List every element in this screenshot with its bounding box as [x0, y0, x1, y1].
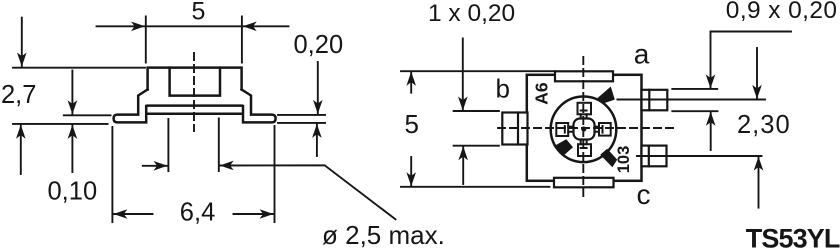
left view vertical centerline [193, 53, 195, 131]
dimension label 5 (top) [192, 0, 206, 26]
rotor wedge NE [597, 87, 615, 104]
dimension label 2,30 [737, 111, 791, 139]
svg-text:5: 5 [192, 0, 206, 26]
svg-text:A6: A6 [532, 82, 552, 105]
part number TS53YL [746, 223, 840, 250]
dimension slot 2,5 leader with left-pointing arrow [220, 165, 395, 219]
dimension 6,4 extension lines [112, 126, 274, 222]
rotor wedge SW [554, 139, 573, 155]
right view bottom pad [554, 178, 614, 188]
svg-text:0,10: 0,10 [48, 177, 98, 205]
svg-text:c: c [637, 179, 651, 210]
dimension 0,10 reference lines [13, 115, 111, 124]
rotor south slot [578, 140, 591, 157]
svg-text:a: a [634, 39, 650, 70]
svg-text:ø 2,5 max.: ø 2,5 max. [322, 220, 445, 250]
rotor east slot [595, 123, 611, 136]
dimension 1 x 0,20 arrows [462, 38, 464, 184]
dimension label diameter 2,5 max. [322, 220, 445, 250]
rotor center dot [581, 126, 586, 131]
dimension label 6,4 [180, 199, 215, 227]
dimension label 0,20 [294, 31, 344, 59]
dimension label 1 x 0,20 [428, 0, 515, 27]
svg-text:103: 103 [615, 146, 633, 174]
dimension 5 (right view) arrows [410, 72, 412, 186]
dimension 2,7 top extension line [13, 67, 145, 69]
rotor center hub [574, 119, 595, 140]
dimension 2,7 arrows [21, 18, 22, 174]
terminal label a [634, 39, 650, 70]
dimension 1 x 0,20 reference lines [454, 111, 499, 146]
right view rotor circle [551, 97, 617, 163]
right view body outline [527, 75, 642, 181]
terminal label c [637, 179, 651, 210]
svg-text:2,7: 2,7 [1, 81, 36, 109]
dimension 2,30 arrows [711, 112, 759, 207]
left view body outline [147, 68, 242, 114]
right view vertical centerline [582, 57, 584, 197]
rotor north slot [578, 103, 592, 119]
dimension slot 2,5 right-pointing arrow [143, 165, 167, 167]
right view terminal c [642, 146, 667, 167]
svg-text:0,9 x 0,20: 0,9 x 0,20 [726, 0, 838, 24]
svg-text:6,4: 6,4 [180, 199, 215, 227]
right view horizontal centerline [498, 127, 676, 129]
marking 103 [615, 146, 633, 174]
dimension 0,20 foot thickness extension lines [278, 115, 325, 123]
dimension 0,9 x 0,20 right arrow [756, 48, 758, 98]
left view left lead [114, 90, 148, 123]
rotor west slot [556, 123, 573, 136]
dimension 5 (right view) extension lines [401, 71, 555, 187]
left view rotor slot rectangle [170, 68, 220, 96]
terminal label b [496, 74, 510, 104]
dimension slot 2,5 extension lines [168, 119, 218, 172]
svg-text:0,20: 0,20 [294, 31, 344, 59]
terminal a reference lines [617, 89, 765, 111]
dimension label 5 (right view) [405, 109, 419, 139]
dimension 0,20 arrows [316, 62, 319, 156]
dimension 0,9 x 0,20 bracket and left arrow [711, 32, 792, 88]
svg-text:5: 5 [405, 109, 419, 139]
svg-text:2,30: 2,30 [737, 111, 791, 139]
svg-text:b: b [496, 74, 510, 104]
dimension label 0,9 x 0,20 [726, 0, 838, 24]
left view right lead [242, 90, 276, 123]
right view terminal b [502, 113, 527, 145]
right view top pad [555, 71, 613, 81]
dimension 5 (top width) dimension lines with arrows [97, 25, 289, 27]
dimension 5 (top width) extension lines [146, 17, 242, 63]
svg-text:TS53YL: TS53YL [746, 223, 840, 250]
dimension label 2,7 [1, 81, 36, 109]
dimension 0,10 arrows [71, 71, 73, 173]
dimension 6,4 arrows [114, 213, 273, 215]
dimension label 0,10 [48, 177, 98, 205]
marking A6 [532, 82, 552, 105]
svg-text:1 x 0,20: 1 x 0,20 [428, 0, 515, 27]
right view terminal a [642, 90, 668, 111]
terminal c reference line [637, 155, 762, 157]
rotor wedge SE [600, 149, 617, 168]
